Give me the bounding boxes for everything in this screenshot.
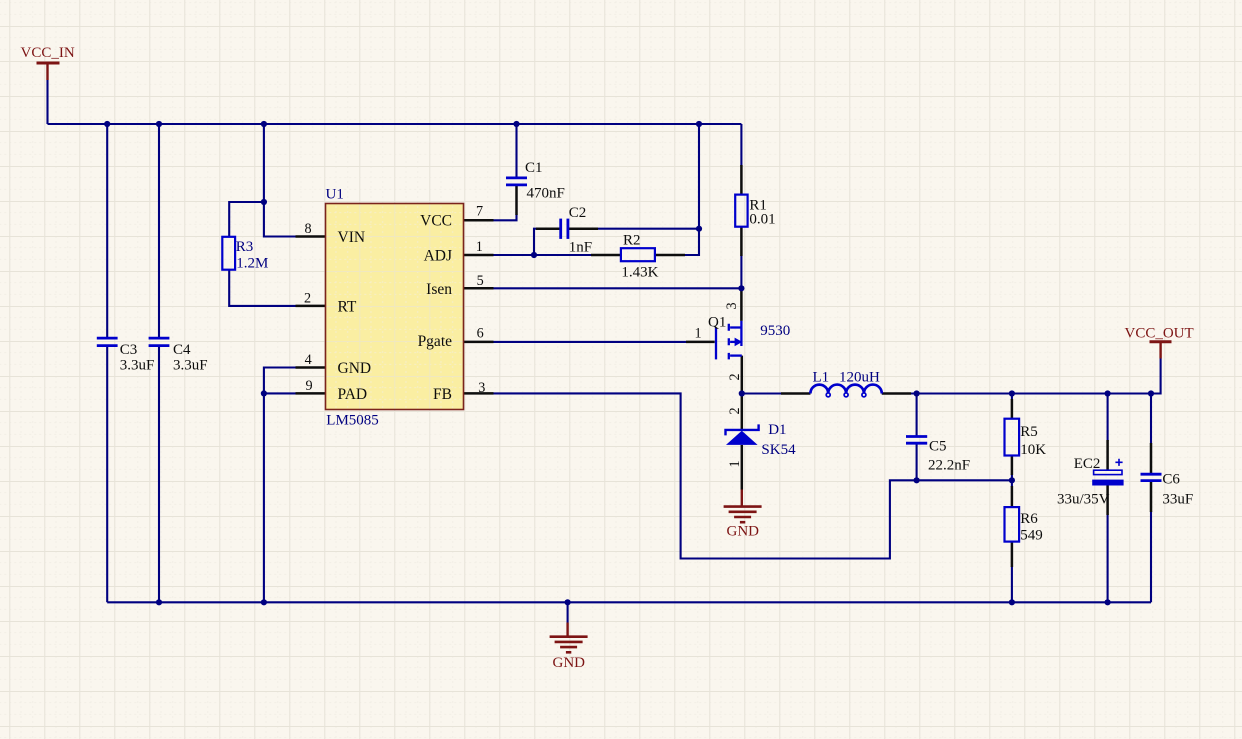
pin R5 top bbox=[1011, 399, 1014, 419]
svg-text:RT: RT bbox=[338, 299, 357, 316]
svg-text:C5: C5 bbox=[929, 439, 947, 455]
resistor R2 bbox=[621, 248, 655, 261]
wire vertical bus-to-R2 bbox=[684, 124, 699, 255]
VCC_OUT power bar bbox=[1150, 340, 1172, 343]
wire Isen bbox=[494, 287, 742, 289]
svg-text:VCC: VCC bbox=[420, 213, 452, 230]
pin 4 GND bbox=[296, 366, 326, 369]
wire EC2 top bbox=[1107, 394, 1109, 442]
node PAD bbox=[261, 390, 267, 396]
pin 5 Isen bbox=[464, 287, 494, 290]
capacitor C3 bbox=[97, 337, 118, 340]
pin R5 bottom bbox=[1011, 456, 1014, 476]
pin 9 PAD bbox=[296, 392, 326, 395]
svg-text:120uH: 120uH bbox=[839, 369, 880, 385]
svg-text:4: 4 bbox=[305, 352, 312, 368]
svg-text:ADJ: ADJ bbox=[424, 248, 452, 265]
node gnd-EC2 bbox=[1105, 599, 1111, 605]
node R3 top bbox=[261, 199, 267, 205]
pin L1 right bbox=[882, 392, 911, 395]
svg-text:VCC_IN: VCC_IN bbox=[21, 45, 75, 61]
pin C6 top bbox=[1150, 443, 1153, 473]
transistor Q1 (P-MOSFET 9530) bbox=[716, 321, 742, 360]
pin 1 D1 anode bbox=[741, 445, 744, 490]
polarized capacitor EC2 bbox=[1094, 470, 1122, 474]
wire R1 top feed bbox=[740, 124, 742, 166]
op-amp U1 body (LM5085 IC) bbox=[326, 204, 464, 410]
pin EC2 bottom bbox=[1106, 485, 1109, 515]
pin C2 right bbox=[569, 227, 599, 230]
capacitor C2 bbox=[559, 219, 562, 239]
svg-text:Isen: Isen bbox=[426, 281, 452, 298]
svg-text:2: 2 bbox=[727, 407, 743, 414]
svg-text:R5: R5 bbox=[1020, 424, 1038, 440]
diode D1 (SK54 schottky) bbox=[726, 424, 759, 435]
wire switch node to L1 bbox=[742, 392, 811, 394]
pin R2 right bbox=[655, 254, 685, 257]
resistor R5 bbox=[1005, 419, 1020, 456]
svg-text:EC2: EC2 bbox=[1074, 456, 1101, 472]
node gnd-R6 bbox=[1009, 599, 1015, 605]
svg-text:7: 7 bbox=[476, 204, 483, 220]
svg-text:1: 1 bbox=[694, 326, 701, 342]
svg-text:3.3uF: 3.3uF bbox=[173, 357, 208, 373]
svg-text:FB: FB bbox=[433, 386, 452, 403]
node Isen-R1 bbox=[738, 285, 744, 291]
svg-text:GND: GND bbox=[553, 655, 586, 671]
pin 1 ADJ bbox=[464, 254, 494, 257]
svg-text:GND: GND bbox=[727, 524, 760, 540]
svg-text:22.2nF: 22.2nF bbox=[928, 458, 970, 474]
svg-text:10K: 10K bbox=[1020, 442, 1046, 458]
node out-EC2 bbox=[1105, 390, 1111, 396]
svg-text:470nF: 470nF bbox=[527, 186, 565, 202]
wire R3 bottom to RT bbox=[229, 270, 295, 306]
pin R6 bottom bbox=[1011, 542, 1014, 567]
svg-text:1: 1 bbox=[727, 460, 743, 467]
svg-text:VCC_OUT: VCC_OUT bbox=[1125, 326, 1194, 342]
node C2-riser bbox=[696, 226, 702, 232]
node out-R5 bbox=[1009, 390, 1015, 396]
pin 3 FB bbox=[464, 392, 494, 395]
wire C2 left branch bbox=[534, 229, 537, 255]
wire GND stub center bbox=[567, 602, 569, 622]
node out-C6 bbox=[1148, 390, 1154, 396]
wire R5 bottom stubnavy bbox=[1011, 474, 1013, 480]
wire C1 top bbox=[515, 124, 517, 177]
wire C6 top bbox=[1150, 394, 1152, 445]
resistor R1 bbox=[735, 195, 747, 227]
svg-text:C1: C1 bbox=[525, 160, 543, 176]
svg-text:U1: U1 bbox=[326, 187, 344, 203]
svg-text:0.01: 0.01 bbox=[749, 211, 775, 227]
node gnd-PAD bbox=[261, 599, 267, 605]
svg-text:Q1: Q1 bbox=[708, 314, 726, 330]
wire C6 bottom bbox=[1150, 511, 1152, 602]
wire R1 bottom to Isen node bbox=[740, 255, 742, 288]
svg-text:C2: C2 bbox=[569, 205, 587, 221]
svg-text:R2: R2 bbox=[623, 233, 641, 249]
capacitor C5 bbox=[906, 435, 927, 438]
wire C3 branch lower bbox=[106, 347, 108, 602]
svg-text:Pgate: Pgate bbox=[418, 333, 453, 350]
svg-text:C6: C6 bbox=[1162, 472, 1180, 488]
wire C3 branch upper bbox=[106, 124, 108, 338]
pin 2 Q1 source bbox=[741, 356, 744, 394]
capacitor C1 bbox=[506, 176, 527, 179]
wire R5 top stubnavy bbox=[1011, 394, 1013, 401]
svg-text:VIN: VIN bbox=[338, 229, 366, 246]
node fb-R5R6 bbox=[1009, 477, 1015, 483]
pin C1 bottom bbox=[515, 186, 518, 215]
wire EC2 bottom bbox=[1107, 514, 1109, 602]
svg-text:33u/35V: 33u/35V bbox=[1057, 491, 1110, 507]
svg-text:549: 549 bbox=[1020, 527, 1042, 543]
node fb-C5 bbox=[914, 477, 920, 483]
pin C6 bottom bbox=[1150, 481, 1153, 512]
svg-text:3: 3 bbox=[478, 380, 485, 396]
ground symbol bottom-center bbox=[566, 623, 568, 637]
node bus-C4 bbox=[156, 121, 162, 127]
svg-text:8: 8 bbox=[304, 221, 311, 237]
svg-text:6: 6 bbox=[477, 325, 484, 341]
svg-text:2: 2 bbox=[727, 373, 743, 380]
wire C4 branch upper bbox=[158, 124, 160, 338]
node bus-R2riser bbox=[696, 121, 702, 127]
node bus-VIN bbox=[261, 121, 267, 127]
wire R3 top loop bbox=[229, 202, 264, 237]
wire FB path bbox=[494, 393, 1012, 558]
wire R6 top stubnavy bbox=[1011, 480, 1013, 487]
svg-text:1.43K: 1.43K bbox=[621, 265, 658, 281]
pin R1 bottom bbox=[740, 227, 743, 256]
wire C5 bottom bbox=[916, 444, 918, 480]
node switch bbox=[739, 390, 745, 396]
svg-text:SK54: SK54 bbox=[761, 442, 796, 458]
inductor L1 bbox=[810, 385, 881, 394]
svg-text:D1: D1 bbox=[768, 422, 786, 438]
svg-text:PAD: PAD bbox=[338, 386, 368, 403]
wire bottom ground rail bbox=[107, 601, 1151, 603]
wire L1 to VCC_OUT rail bbox=[882, 359, 1161, 394]
wire R6 bottom bbox=[1011, 566, 1013, 602]
wire GND pin to PAD rail bbox=[264, 368, 296, 603]
wire VIN feed vertical bbox=[264, 124, 296, 237]
capacitor C4 bbox=[149, 337, 170, 340]
PINS-BLACK bbox=[296, 165, 1152, 567]
node gnd-center bbox=[565, 599, 571, 605]
pin 2 RT bbox=[296, 305, 326, 308]
svg-text:R3: R3 bbox=[236, 239, 254, 255]
svg-text:1: 1 bbox=[476, 239, 483, 255]
pin 7 VCC bbox=[464, 219, 494, 222]
pin 6 Pgate bbox=[464, 341, 494, 344]
node gnd-C4 bbox=[156, 599, 162, 605]
resistor R6 bbox=[1005, 507, 1020, 541]
pin 3 Q1 drain bbox=[740, 288, 743, 321]
WIRES-NAVY bbox=[48, 80, 1161, 623]
pin R1 top bbox=[740, 165, 743, 195]
node bus-C1 bbox=[513, 121, 519, 127]
node ADJ-C2 bbox=[531, 252, 537, 258]
POWER-RED bbox=[37, 63, 1172, 652]
svg-text:3.3uF: 3.3uF bbox=[120, 357, 155, 373]
wire ADJ to R2 bbox=[494, 254, 593, 256]
svg-text:C4: C4 bbox=[173, 342, 191, 358]
ground symbol under D1 red stub bbox=[741, 490, 743, 507]
SYMBOLS-BLUE bbox=[97, 178, 1162, 542]
wire C1 bottom to VCC pin bbox=[494, 214, 517, 220]
svg-text:2: 2 bbox=[304, 290, 311, 306]
svg-text:33uF: 33uF bbox=[1162, 492, 1193, 508]
wire C4 branch lower bbox=[158, 347, 160, 602]
svg-text:5: 5 bbox=[477, 273, 484, 289]
wire PAD pin bbox=[264, 392, 296, 394]
pin 1 Q1 gate wire bbox=[686, 341, 715, 344]
svg-text:9530: 9530 bbox=[760, 323, 790, 339]
svg-text:GND: GND bbox=[338, 360, 372, 377]
svg-text:3: 3 bbox=[724, 302, 740, 309]
pin 2 D1 cathode bbox=[741, 394, 744, 430]
node out-C5 bbox=[914, 390, 920, 396]
VCC_IN power bar bbox=[37, 62, 60, 65]
pin L1 left bbox=[781, 392, 810, 395]
wire C2 right bbox=[597, 228, 699, 230]
pin EC2 top bbox=[1106, 440, 1109, 470]
pin R6 top bbox=[1011, 486, 1014, 507]
wire top input bus bbox=[48, 123, 742, 125]
node bus-C3 bbox=[104, 121, 110, 127]
svg-text:LM5085: LM5085 bbox=[326, 413, 379, 429]
svg-text:C3: C3 bbox=[120, 342, 138, 358]
wire Pgate bbox=[494, 341, 687, 343]
svg-text:L1: L1 bbox=[813, 369, 830, 385]
svg-text:9: 9 bbox=[305, 378, 312, 394]
pin R2 left bbox=[591, 254, 621, 257]
svg-text:1nF: 1nF bbox=[569, 240, 592, 256]
resistor R3 bbox=[222, 237, 235, 270]
wire VCC_IN stub bbox=[46, 80, 48, 124]
pin C2 left bbox=[536, 227, 560, 230]
capacitor C6 bbox=[1141, 473, 1162, 476]
wire C5 top bbox=[916, 394, 918, 436]
svg-text:R6: R6 bbox=[1020, 511, 1038, 527]
svg-text:1.2M: 1.2M bbox=[236, 255, 268, 271]
pin 8 VIN bbox=[296, 235, 326, 238]
